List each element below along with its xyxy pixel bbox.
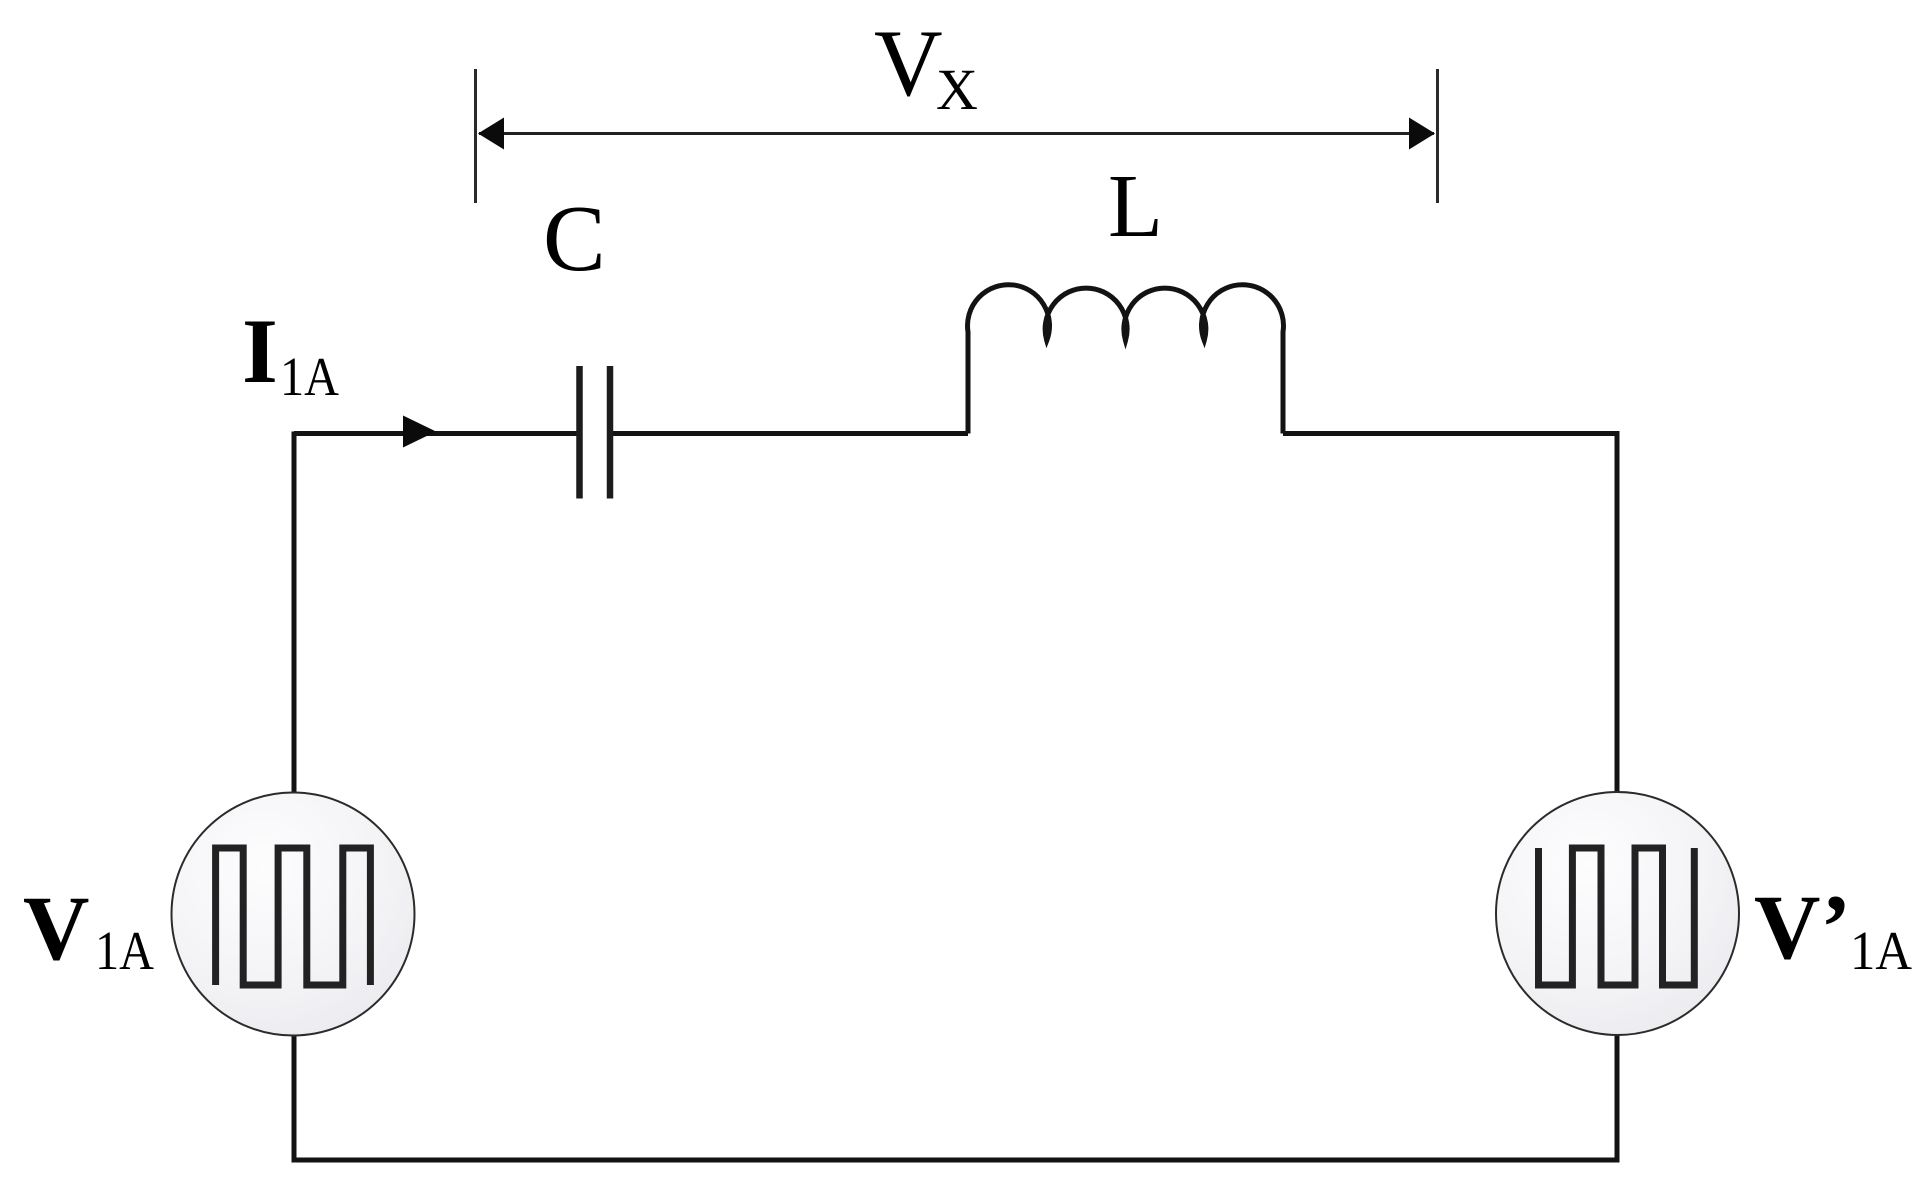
svg-text:X: X (936, 57, 978, 122)
svg-text:1A: 1A (95, 920, 154, 981)
svg-text:V: V (874, 10, 943, 116)
svg-text:L: L (1108, 157, 1163, 256)
capacitor C left plate (576, 366, 583, 499)
wire left vertical bottom + bottom wire + right vertical bottom (294, 1033, 1617, 1160)
wire left vertical top (292, 432, 297, 794)
node Vx dimension: right tick (1436, 69, 1439, 203)
source V'1A square wave (1539, 848, 1695, 985)
svg-text:V’: V’ (1754, 876, 1851, 978)
wire capacitor to inductor (613, 431, 968, 436)
capacitor C right plate (607, 366, 614, 499)
node Vx dimension: left arrowhead (478, 118, 504, 150)
svg-text:V: V (23, 877, 89, 979)
svg-text:I: I (242, 300, 278, 402)
source V1A square wave (216, 848, 371, 985)
node Vx dimension: arrow line (479, 132, 1434, 135)
node Vx dimension: left tick (474, 69, 477, 203)
svg-text:C: C (543, 187, 606, 291)
inductor L (968, 285, 1284, 434)
source V'1A circle (1496, 792, 1739, 1035)
svg-text:1A: 1A (1850, 920, 1912, 981)
wire arrow I1A (403, 416, 436, 448)
wire top-left horizontal (294, 431, 577, 436)
svg-text:1A: 1A (280, 346, 339, 407)
node Vx dimension: right arrowhead (1409, 118, 1435, 150)
source V1A circle (172, 793, 415, 1036)
wire inductor to top-right corner and down (1283, 434, 1617, 794)
